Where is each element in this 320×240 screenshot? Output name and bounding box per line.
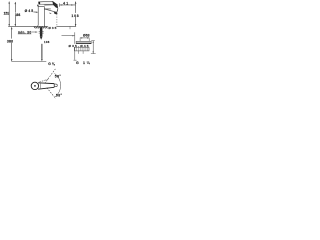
dimension line 108 (vertical) [75, 2, 77, 27]
supply hose [41, 44, 43, 59]
swivel dashed ray lower [47, 88, 56, 99]
label D35-45 [68, 44, 89, 47]
faucet body [37, 6, 39, 25]
label 164 [15, 13, 21, 17]
label D35 on deck [48, 25, 56, 29]
label D63 [83, 33, 90, 37]
label 151 [4, 12, 10, 16]
dimension 41 [59, 3, 61, 6]
aerator mark [54, 12, 57, 14]
svg-text:380: 380 [7, 39, 13, 43]
label 41 [63, 2, 68, 6]
label 380 [7, 39, 14, 43]
svg-text:164: 164 [15, 13, 21, 17]
dimension line 151 [8, 1, 10, 26]
top view: lever knob circle [31, 82, 38, 89]
svg-text:Ø35: Ø35 [48, 26, 56, 30]
label 58 top [55, 75, 62, 79]
svg-text:58°: 58° [56, 93, 63, 97]
waste stem [78, 51, 80, 54]
label G3/8 at hose end [48, 62, 55, 66]
dimension line 164 [15, 2, 17, 27]
top view body [38, 82, 54, 85]
lever joint cap [37, 5, 38, 7]
svg-text:108: 108 [71, 14, 78, 18]
waste right dimension [92, 41, 94, 54]
countertop deck line [8, 25, 76, 27]
svg-text:58°: 58° [55, 75, 62, 79]
deck edge tick [69, 27, 71, 30]
svg-text:151: 151 [4, 12, 10, 16]
swivel dashed ray upper [45, 69, 56, 84]
knob center dot [34, 85, 36, 87]
svg-text:Ø63: Ø63 [83, 33, 90, 37]
dimension line 380 [11, 27, 13, 61]
faucet lever (side view) [39, 1, 58, 4]
label D45 with leader [25, 9, 34, 13]
label 108 [71, 13, 79, 17]
short dashed segment upper-left [39, 79, 48, 82]
label G 1 1/4 [76, 61, 91, 65]
waste flange [76, 41, 91, 43]
deck hatching [34, 27, 48, 29]
label max.30 with arrow [18, 31, 31, 35]
shank arrow [40, 37, 43, 40]
hose end reference line [12, 61, 47, 63]
spout [44, 4, 56, 6]
waste D63 dimension [80, 37, 90, 39]
label G3/8 mid [44, 40, 50, 44]
svg-text:Ø45: Ø45 [25, 9, 34, 13]
label 58 bottom [56, 93, 63, 97]
waste body [74, 47, 89, 51]
dashed water axis [56, 14, 58, 26]
swivel arc [54, 73, 60, 97]
mounting nut [39, 31, 44, 33]
mid leader arrow (waste linkage) [62, 35, 75, 37]
svg-text:G 1¼: G 1¼ [76, 61, 91, 65]
threaded shank below deck [40, 27, 43, 37]
spout nub [54, 84, 57, 87]
body base flare [38, 25, 45, 26]
